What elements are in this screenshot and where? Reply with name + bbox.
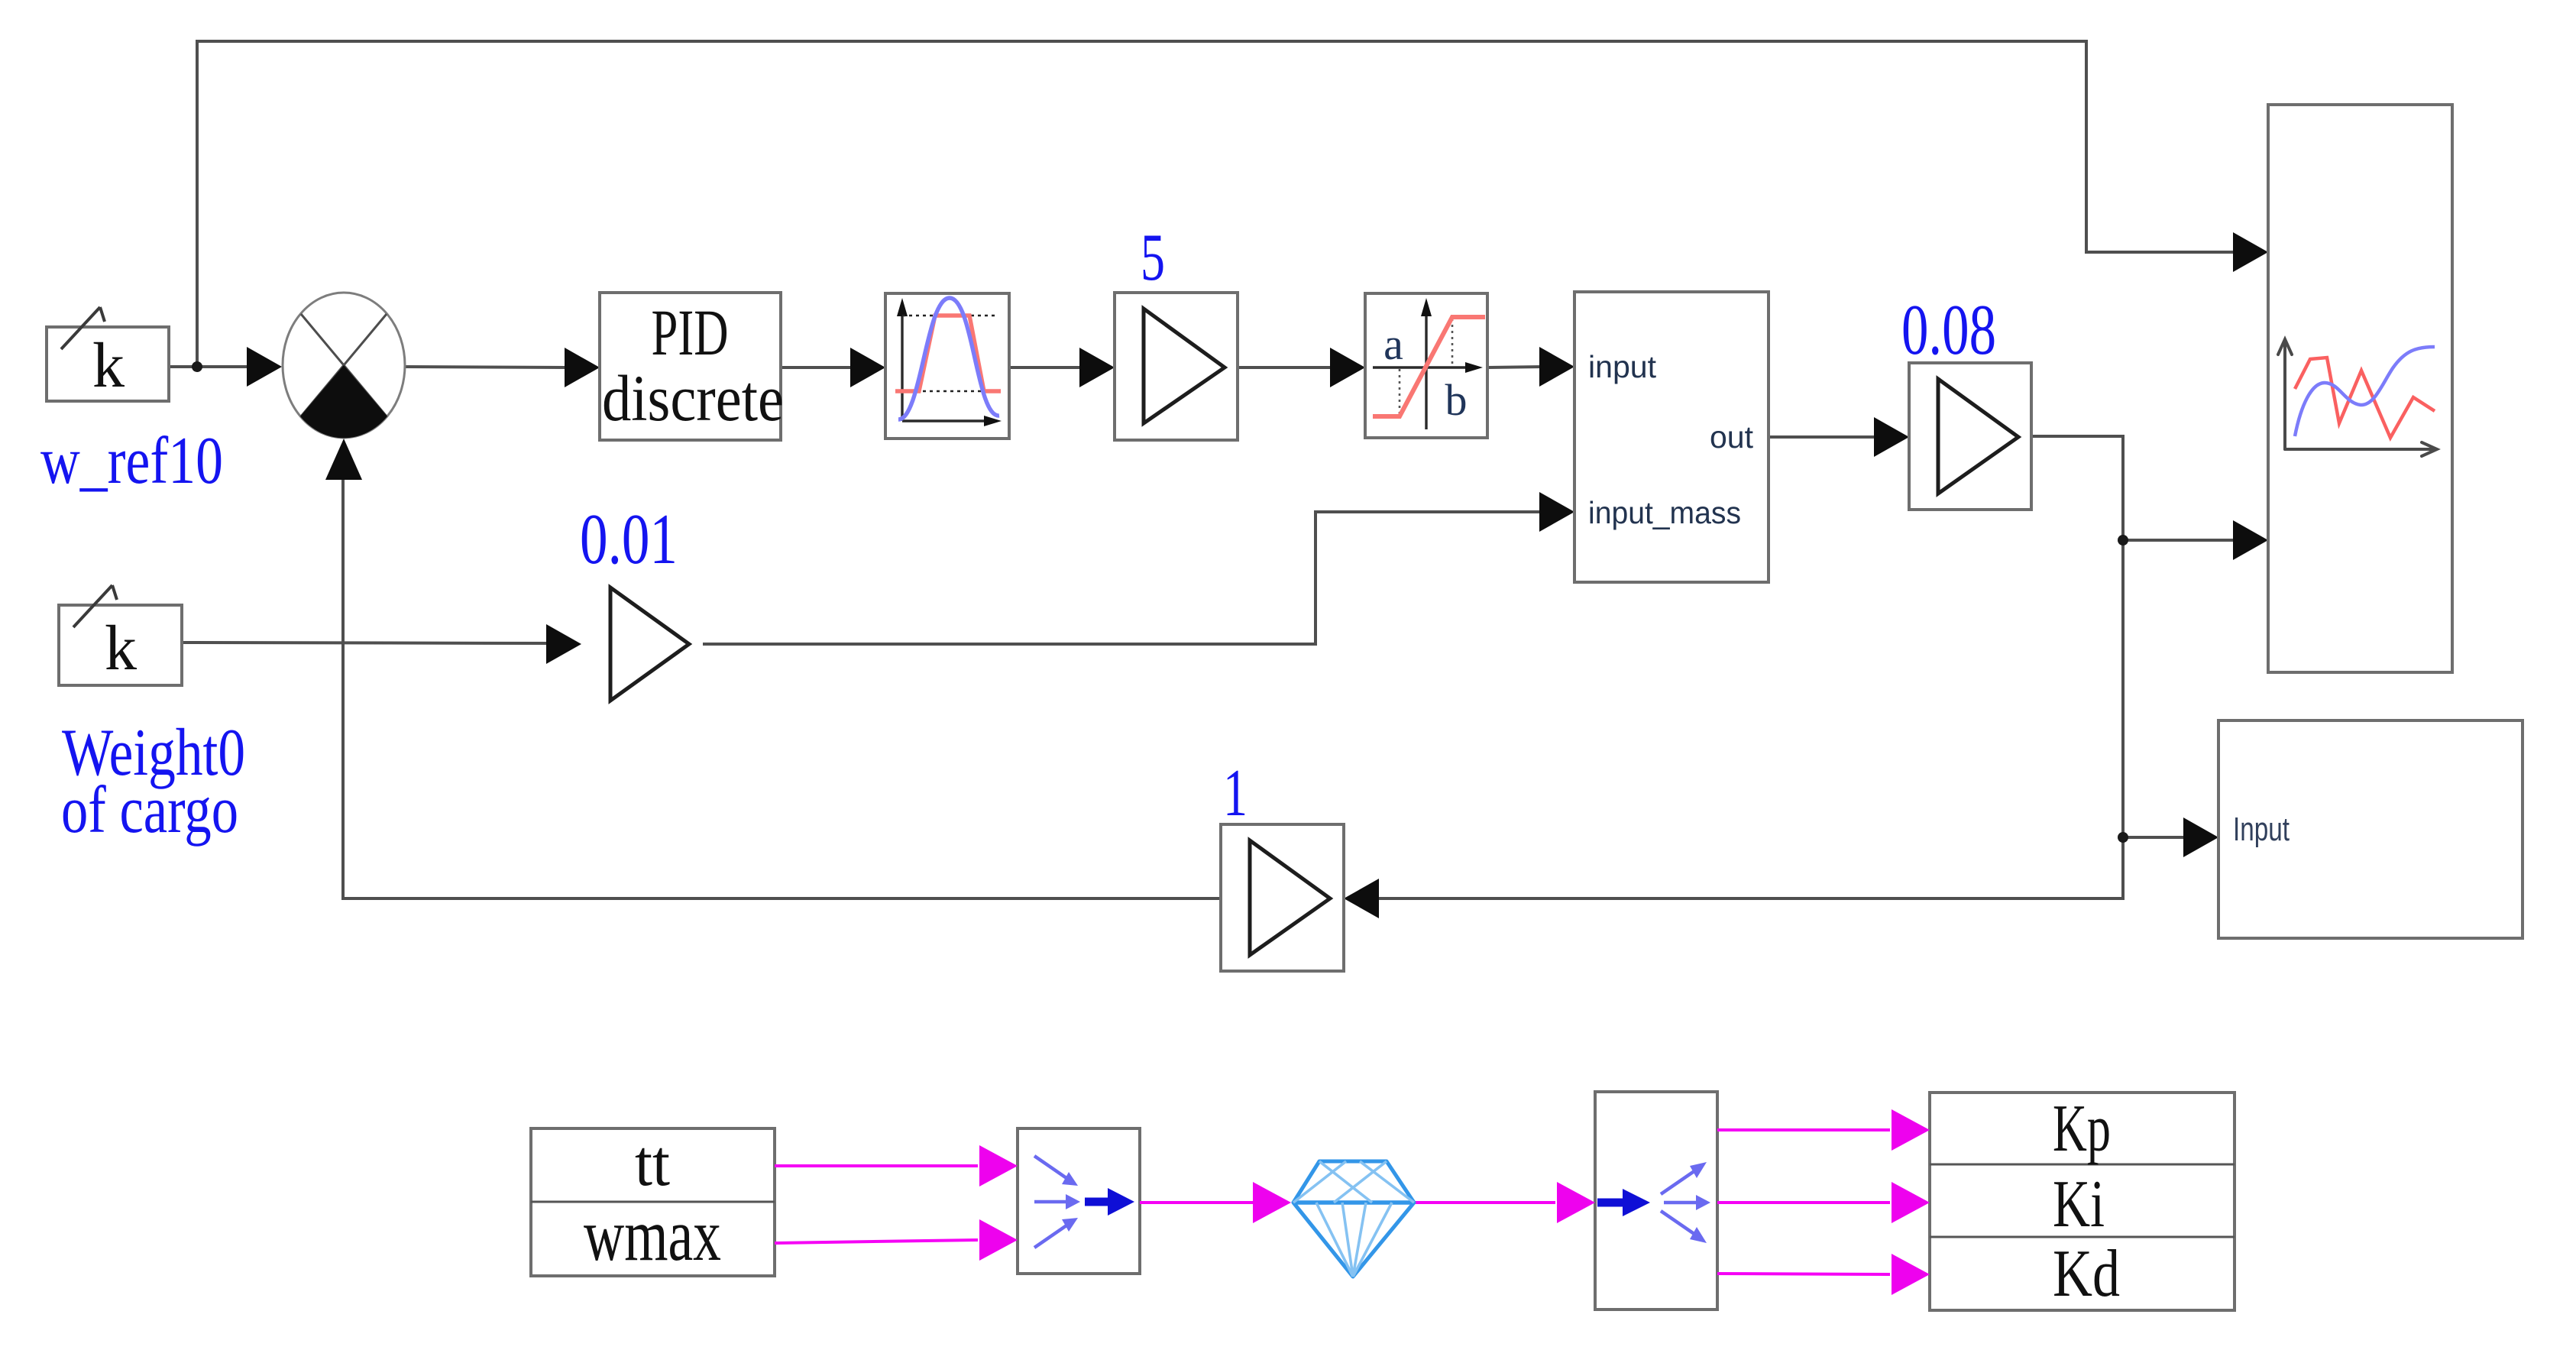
svg-text:5: 5 xyxy=(1141,221,1165,295)
svg-text:tt: tt xyxy=(635,1126,670,1199)
svg-text:out: out xyxy=(1710,419,1754,455)
svg-text:b: b xyxy=(1445,375,1468,425)
svg-text:wmax: wmax xyxy=(584,1194,721,1277)
svg-text:k: k xyxy=(105,613,137,684)
svg-text:input: input xyxy=(1588,349,1657,384)
svg-text:PID: PID xyxy=(652,296,729,369)
svg-text:a: a xyxy=(1383,319,1403,369)
svg-text:input_mass: input_mass xyxy=(1588,495,1741,530)
svg-text:1: 1 xyxy=(1223,756,1248,830)
svg-text:of cargo: of cargo xyxy=(61,773,238,847)
svg-text:Input: Input xyxy=(2233,811,2290,848)
svg-text:0.01: 0.01 xyxy=(580,500,678,579)
svg-text:Kp: Kp xyxy=(2053,1092,2111,1166)
svg-text:Ki: Ki xyxy=(2053,1167,2105,1242)
svg-text:k: k xyxy=(92,330,125,401)
svg-text:0.08: 0.08 xyxy=(1901,290,1996,370)
svg-text:w_ref10: w_ref10 xyxy=(40,424,223,498)
svg-text:Kd: Kd xyxy=(2053,1237,2120,1311)
svg-text:discrete: discrete xyxy=(602,361,784,435)
